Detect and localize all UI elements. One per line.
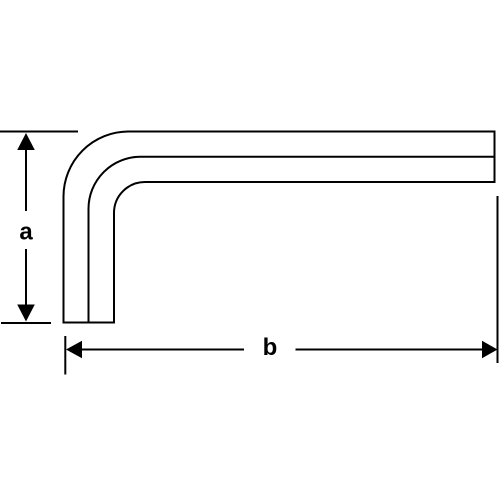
dimension b right arrowhead <box>482 341 498 358</box>
dimension a up arrowhead <box>17 133 35 150</box>
hex key middle edge line <box>89 157 495 323</box>
dimension a shaft lower <box>25 249 27 306</box>
dimension a shaft upper <box>25 147 27 211</box>
svg-text:b: b <box>263 334 278 361</box>
hex key outer outline <box>64 132 495 323</box>
dimension a bottom tick <box>1 322 51 324</box>
dimension b left extension line <box>64 336 66 375</box>
dimension a top tick <box>0 131 78 133</box>
dimension b line right segment <box>296 349 484 351</box>
dimension b right extension line <box>497 196 499 363</box>
svg-text:a: a <box>19 219 33 246</box>
dimension a down arrowhead <box>17 305 35 322</box>
dimension b line left segment <box>80 349 244 351</box>
dimension b left arrowhead <box>66 341 82 359</box>
